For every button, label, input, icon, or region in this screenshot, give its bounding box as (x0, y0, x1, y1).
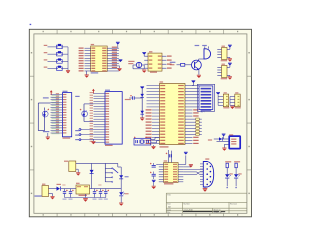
svg-text:Sheet of: Sheet of (214, 208, 221, 211)
svg-text:Date: Date (167, 208, 171, 211)
svg-text:Revision: Revision (230, 203, 237, 205)
svg-text:Drawn By:: Drawn By: (214, 212, 223, 214)
svg-text:Number: Number (184, 203, 191, 205)
svg-text:File: File (167, 212, 170, 214)
svg-text:Size: Size (167, 203, 171, 205)
svg-text:Title: Title (167, 194, 171, 197)
